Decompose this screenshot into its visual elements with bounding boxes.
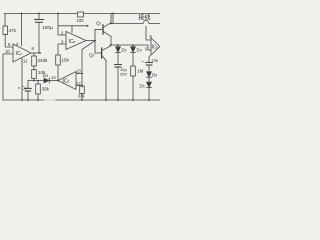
wire 15k to ICd output node [57,65,59,81]
svg-text:1M: 1M [137,69,144,74]
node ground 1M [132,99,134,101]
wire V+ rail to ICa pin2 [58,14,66,36]
svg-text:33k: 33k [42,87,50,92]
svg-text:Q1: Q1 [96,21,102,26]
svg-text:10: 10 [5,49,10,54]
node A left junction [33,80,35,82]
wire ground bottom rail faint segment [44,99,56,101]
node ground 33k left [37,99,39,101]
wire ICb pin6 from crossover [146,26,151,40]
capacitor C4 10u top plate [146,62,153,64]
node bias branch end [87,25,89,27]
svg-text:接线: 接线 [138,14,150,22]
svg-text:C1: C1 [22,86,27,91]
wire 33k to ground [37,94,39,100]
wire D5 to ground [148,88,150,100]
capacitor C3 10u top plate [115,64,122,66]
svg-text:D5: D5 [140,84,145,89]
capacitor C2 100u top plate [35,19,44,21]
node ground D5 [148,99,150,101]
transistor Q1 base bar [102,25,104,34]
transistor Q2 base bar [101,48,103,58]
node push-pull output junction [110,44,112,46]
resistor R1 47k [3,26,8,35]
node capacitor 100u on V+ rail [38,13,40,15]
diode D6 cathode bar [147,76,152,78]
node ground pin11 [21,99,23,101]
op-amp IC1d [58,72,76,90]
wire output line to terminal [111,23,143,25]
wire base bus to Q1 base [95,29,103,31]
node ground C3 [117,99,119,101]
op-amp IC1a [66,32,86,50]
wire Q2 collector to ground [105,61,107,101]
wire ICc output pin8 [31,52,40,54]
wire V+ rail to resistor 47k [4,14,6,27]
wire node to diode D3 [132,45,134,47]
svg-text:12: 12 [76,81,81,86]
wire ground bottom rail right segment [56,99,160,101]
wire capacitor C1 to ground [27,91,29,100]
wire below ICb to capacitor [149,56,150,63]
wire node A to diode D4 [28,80,44,82]
node ground C1 [27,99,29,101]
wire ICd pin12 stub [76,85,82,87]
node ICc output junction [39,52,41,54]
wire 240k to 10k [33,66,35,70]
wire base bus to Q2 base [95,52,101,54]
capacitor C1 top plate [25,87,31,89]
wire Q1 emitter to output node [110,37,112,46]
svg-text:100: 100 [77,18,85,23]
node ICa output junction [94,40,96,42]
wire feedback diagonal to ICd inputs [82,41,95,88]
node ICd output pin14 [57,80,59,82]
capacitor C4 10u bottom plate [146,64,152,66]
transistor Q1 emitter lead [103,32,111,37]
diode D6 arrow [147,72,152,77]
wire 1M to ground [132,76,134,100]
wire capacitor C4 to diode D6 [148,65,150,72]
node ground Q2 [105,99,107,101]
node ICd pin13 [81,73,83,75]
svg-text:25V: 25V [120,72,127,77]
diode D5 arrow [147,82,152,87]
svg-text:14: 14 [51,75,56,80]
diode D3 cathode bar [131,51,136,53]
wire 33k to ground [81,94,83,101]
capacitor C3 10u bottom plate [115,66,121,68]
wire rail to capacitor 100u [38,14,40,20]
wire ICc pin10 input to ground [3,54,13,100]
node D3 tap [132,44,134,46]
wire D3 to resistor 1M [132,52,134,66]
op-amp IC1c [13,44,31,62]
wire node to diode D2 [117,45,119,47]
resistor R4 33k [36,84,41,94]
resistor R3 10k [32,70,37,79]
diode D3 arrow [131,47,136,52]
diode D4 cathode bar [48,78,50,83]
resistor R6 33k [80,86,85,94]
svg-text:D2: D2 [122,48,127,53]
resistor R8 100 in V+ rail [78,12,84,17]
svg-text:Q2: Q2 [89,53,95,58]
resistor R2 240k [32,56,37,66]
wire 47k to ICc pin 9 [5,35,13,48]
wire ICa output pin1 [86,40,95,42]
svg-text:11: 11 [23,59,28,64]
wire capacitor 100u to ICc output node [38,23,40,54]
transistor Q1 collector lead [103,23,111,28]
wire D2 to capacitor 10u [117,52,119,64]
wire ICa pin3 input [58,44,66,55]
svg-text:D4: D4 [43,73,48,78]
node ICd pin12 [81,85,83,87]
node D2 tap [117,44,119,46]
capacitor C1 bottom plate [25,90,30,92]
svg-text:100μ: 100μ [42,25,53,31]
node A right junction [37,80,39,82]
wire ICb pin5 jog [148,45,151,50]
diode D2 arrow [116,47,121,52]
resistor R7 1M [131,66,136,76]
node Q1 collector on output line [110,23,112,25]
wire ICd pin13 stub [76,73,82,75]
wire output line right of jump [149,23,160,25]
wire bias branch to output node [58,25,88,27]
node ground 33k right [81,99,83,101]
wire crossover jump on output line [143,21,149,24]
wire link V+ rail to output line [112,14,114,24]
wire D4 to ICd output pin14 [49,80,58,82]
node bias branch on V+ rail [57,13,59,15]
op-amp IC1b [151,38,160,55]
capacitor C2 100u bottom plate [36,21,43,23]
wire output node to resistor 240k [33,53,35,56]
wire capacitor 10u to ground [117,67,119,100]
wire node A to resistor 33k [37,81,39,85]
svg-text:13: 13 [76,69,81,74]
svg-text:33k: 33k [78,94,86,99]
wire Q1 collector to rails [110,14,112,24]
svg-text:15k: 15k [62,58,70,63]
svg-text:D6: D6 [152,73,157,78]
wire 10k to node A [33,79,35,81]
wire V+ top rail [4,13,160,15]
transistor Q2 collector lead [102,56,106,61]
resistor R5 15k [56,55,61,65]
wire ICc pin4 V+ [21,14,23,47]
diode D5 cathode bar [147,87,152,89]
svg-text:240k: 240k [38,58,49,63]
wire Q2 emitter to output node [109,45,111,46]
svg-text:10μ: 10μ [152,58,159,63]
node ICc pin4 on V+ rail [21,13,23,15]
wire ICc pin11 to ground [21,59,23,101]
svg-text:D3: D3 [137,48,142,53]
wire base bus vertical [94,30,96,54]
transistor Q2 emitter lead [102,46,110,50]
wire ICa pin4 V+ stub [71,26,73,33]
wire D6 to D5 [148,77,150,82]
diode D4 arrow [44,78,49,83]
node output link on V+ rail [112,13,114,15]
wire output node to ICb pin5 [111,44,148,46]
svg-text:47k: 47k [9,28,17,33]
diode D2 cathode bar [116,51,121,53]
wire ground bottom rail left segment [3,99,44,101]
wire node A to capacitor C1 [27,81,29,89]
